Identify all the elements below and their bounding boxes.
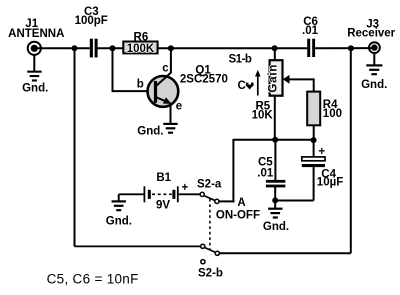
node junction C5 ground [272, 197, 278, 203]
wire C5 bottom [274, 187, 276, 200]
wire left branch down [74, 48, 76, 246]
wire collector up [170, 48, 172, 73]
wire J1 to ground [33, 55, 35, 72]
label S2-a [197, 179, 222, 191]
ground battery [106, 194, 132, 227]
wire R6 to C6 [158, 47, 308, 49]
svg-text:e: e [176, 101, 182, 113]
node junction R5 bottom [272, 137, 278, 143]
svg-text:R6: R6 [134, 31, 149, 43]
svg-text:S2-b: S2-b [198, 268, 223, 280]
label ON-OFF [216, 209, 260, 221]
wire bottom right [220, 252, 351, 254]
label S1-b [229, 53, 252, 65]
svg-text:Gnd.: Gnd. [361, 79, 387, 91]
note C5 C6 value [47, 272, 139, 287]
svg-text:S2-a: S2-a [197, 179, 222, 191]
resistor R6 [123, 31, 157, 55]
svg-text:Gnd.: Gnd. [263, 221, 289, 233]
svg-text:.01: .01 [257, 168, 274, 180]
svg-text:S1-b: S1-b [229, 53, 252, 65]
label Q1 [195, 65, 211, 77]
svg-text:10K: 10K [252, 109, 274, 121]
label Receiver [347, 28, 395, 40]
svg-text:100pF: 100pF [75, 15, 108, 27]
node junction gain top [272, 45, 278, 51]
svg-text:2SC2570: 2SC2570 [180, 74, 228, 86]
wire ground to battery [119, 193, 144, 195]
node junction collector [168, 45, 174, 51]
potentiometer R5 Gain [267, 48, 282, 140]
svg-text:10µF: 10µF [317, 177, 343, 189]
wire A up [232, 139, 234, 202]
svg-text:9V: 9V [156, 200, 170, 212]
svg-text:Gain: Gain [267, 64, 279, 93]
wire top rail J1 to C3 [34, 47, 90, 49]
wire switch link dashed [209, 199, 211, 250]
node junction right branch [348, 45, 354, 51]
node junction base [110, 45, 116, 51]
label ANTENNA [8, 28, 64, 40]
switch S2-b [201, 244, 220, 264]
connector J1 [28, 42, 41, 55]
wire bottom left [75, 245, 201, 247]
svg-text:Gnd.: Gnd. [106, 216, 132, 228]
svg-text:ON-OFF: ON-OFF [216, 209, 260, 221]
label 10K [252, 109, 274, 121]
battery B1 [144, 172, 188, 212]
label R5 [255, 100, 270, 112]
label b [137, 79, 144, 91]
label CW [237, 80, 253, 92]
svg-text:.01: .01 [302, 25, 319, 37]
svg-text:b: b [137, 79, 144, 91]
svg-text:100K: 100K [127, 43, 155, 55]
wire right branch up [350, 48, 352, 253]
svg-text:ANTENNA: ANTENNA [8, 28, 64, 40]
svg-text:B1: B1 [156, 172, 171, 184]
wire R5 bottom to C5 [274, 140, 276, 181]
transistor Q1 [148, 72, 179, 106]
svg-text:C: C [237, 80, 245, 92]
ground under J3 [361, 64, 387, 91]
label S2-b [198, 268, 223, 280]
svg-text:+: + [182, 182, 189, 194]
svg-text:+: + [318, 146, 325, 158]
node junction R4 C4 [311, 137, 317, 143]
wiper arrow R5 [283, 75, 314, 92]
capacitor C5 [257, 157, 285, 188]
svg-text:C5, C6 = 10nF: C5, C6 = 10nF [47, 272, 139, 287]
ground center [263, 200, 289, 232]
svg-text:Gnd.: Gnd. [137, 126, 163, 138]
wire S2-a to A [219, 200, 234, 202]
arrow CW up [255, 70, 261, 96]
ground under J1 [22, 71, 48, 95]
label J3 [366, 18, 379, 30]
wire C3 to R6 [98, 47, 124, 49]
label c [162, 63, 169, 75]
wire R4 bottom [313, 125, 315, 140]
svg-text:Gnd.: Gnd. [22, 83, 48, 95]
svg-text:100: 100 [323, 108, 342, 120]
label J1 [25, 18, 38, 30]
wire emitter down [170, 103, 172, 124]
ground under Q1 emitter [137, 123, 177, 138]
node junction top-left [72, 45, 78, 51]
wire C6 to J3 [315, 47, 372, 49]
wire base drop [112, 48, 155, 91]
wire C4 bottom to ground node [275, 200, 313, 202]
resistor R4 [307, 92, 342, 126]
connector J3 [369, 42, 380, 53]
svg-text:c: c [162, 63, 169, 75]
svg-text:Receiver: Receiver [347, 28, 395, 40]
label 2SC2570 [180, 74, 228, 86]
capacitor C6 [302, 16, 319, 57]
svg-text:A: A [237, 197, 245, 209]
wire supply rail [233, 139, 313, 141]
label e [176, 101, 182, 113]
capacitor C4 [302, 140, 343, 201]
switch S2-a [200, 192, 219, 203]
capacitor C3 [75, 6, 108, 57]
wire J3 to ground [373, 54, 375, 66]
wire battery to S2-a [179, 193, 201, 195]
label A [237, 197, 245, 209]
